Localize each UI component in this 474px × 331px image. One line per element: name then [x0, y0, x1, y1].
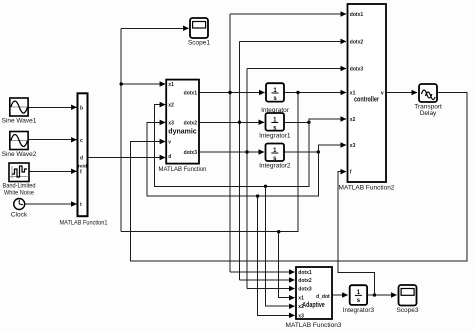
svg-text:dotx1: dotx1: [184, 90, 198, 96]
svg-text:b: b: [80, 105, 83, 111]
svg-text:dotx3: dotx3: [350, 67, 364, 73]
wire dotx2 to controller: [240, 40, 347, 42]
svg-text:x2: x2: [168, 103, 174, 109]
svg-text:Integrator2: Integrator2: [259, 163, 291, 170]
svg-text:dotx3: dotx3: [184, 150, 198, 156]
svg-text:dotx2: dotx2: [298, 278, 312, 284]
junction x3 to adaptive: [256, 194, 259, 197]
svg-text:Clock: Clock: [11, 212, 28, 219]
wire White Noise to f: [29, 170, 77, 172]
block Scope1: [188, 18, 210, 47]
svg-text:dynamic: dynamic: [168, 129, 197, 136]
svg-text:dotx1: dotx1: [350, 12, 364, 18]
svg-text:x1: x1: [168, 82, 174, 88]
svg-text:x3: x3: [168, 120, 174, 126]
block Integrator2: [259, 144, 291, 170]
wire dotx3 trunk vertical: [246, 69, 248, 289]
junction x1 to adaptive: [277, 230, 280, 233]
block MATLAB Function2 controller: [339, 4, 395, 192]
block Clock: [11, 199, 28, 219]
block Integrator3: [343, 285, 375, 314]
wire x1 feedback down: [121, 93, 298, 232]
svg-text:v: v: [168, 140, 171, 146]
svg-text:Scope3: Scope3: [396, 307, 418, 314]
wire x3 to Adaptive x3: [258, 196, 295, 315]
wire x3 jog to controller x3: [318, 145, 346, 152]
svg-text:x2: x2: [350, 117, 356, 123]
wire x2 to Adaptive x2: [266, 186, 295, 306]
wire to x1 input of dynamic: [121, 83, 165, 85]
wire x1 to Adaptive x1: [279, 232, 295, 298]
wire dotx2 to Adaptive: [240, 279, 295, 281]
svg-text:dotx2: dotx2: [350, 39, 364, 45]
junction dotx1: [228, 91, 231, 94]
block MATLAB Function1: [60, 93, 108, 226]
svg-text:Sine Wave2: Sine Wave2: [2, 151, 37, 158]
wire dotx1: dynamic to Integrator: [199, 92, 265, 94]
wire dotx3: dynamic to Integrator2: [199, 151, 264, 153]
junction x2 to adaptive: [264, 185, 267, 188]
block MATLAB Function dynamic: [159, 80, 207, 173]
junction dotx3: [245, 150, 248, 153]
wire dotx2 trunk vertical: [239, 41, 241, 280]
junction f tap: [373, 293, 376, 296]
wire v feedback from Transport Delay to dynamic v: [130, 93, 466, 261]
wire dotx1 to controller: [230, 13, 346, 15]
block MATLAB Function3 Adaptive: [286, 267, 342, 329]
junction x3 out: [317, 150, 320, 153]
svg-text:controller: controller: [354, 97, 379, 104]
block Sine Wave1: [2, 98, 37, 125]
wire x2 feedback down and left: [154, 105, 309, 187]
wire x1: Integrator out to controller x1: [284, 92, 346, 94]
svg-text:v: v: [381, 91, 384, 97]
wire dotx2: dynamic to Integrator1: [199, 121, 264, 123]
wire dotx1 trunk vertical: [229, 14, 231, 272]
svg-text:MATLAB Function1: MATLAB Function1: [60, 220, 108, 227]
svg-text:Band-Limited: Band-Limited: [3, 183, 36, 190]
wire x2 jog to controller x2: [309, 119, 346, 122]
svg-text:Adaptive: Adaptive: [302, 302, 325, 309]
svg-text:MATLAB Function3: MATLAB Function3: [286, 322, 342, 329]
svg-text:x3: x3: [298, 313, 304, 319]
wire to Scope1: [121, 27, 188, 29]
wire d output of MATLAB Function1 to d input of dynamic: [88, 157, 166, 159]
block Band-Limited White Noise: [3, 163, 36, 197]
wire dotx3 to controller: [247, 68, 346, 70]
wire x1 feedback trunk vertical: [120, 28, 122, 231]
svg-text:dotx1: dotx1: [298, 270, 312, 276]
junction x1-branch: [120, 82, 123, 85]
svg-text:Sine Wave1: Sine Wave1: [2, 118, 37, 125]
wire Clock to t: [25, 203, 77, 205]
svg-text:dotx3: dotx3: [298, 287, 312, 293]
svg-text:x1: x1: [298, 296, 304, 302]
block Sine Wave2: [2, 132, 37, 158]
svg-text:MATLAB Function: MATLAB Function: [159, 166, 207, 173]
junction dotx2: [238, 121, 241, 124]
wire v: controller to Transport Delay: [386, 92, 417, 94]
wire Sine Wave2 to c: [28, 139, 77, 141]
wire dotx3 to Adaptive: [247, 288, 295, 290]
wire x3: Integrator2 out: [284, 151, 318, 153]
svg-text:Integrator1: Integrator1: [259, 132, 291, 139]
wire Sine Wave1 to b: [28, 106, 77, 108]
svg-text:Integrator3: Integrator3: [343, 307, 375, 314]
block Transport Delay: [414, 84, 442, 117]
junction x2 out: [307, 121, 310, 124]
wire Integrator3 to Scope3: [367, 294, 396, 296]
block Integrator1: [259, 113, 291, 139]
junction x1 out: [296, 91, 299, 94]
block Scope3: [396, 285, 418, 314]
svg-text:White Noise: White Noise: [4, 190, 34, 197]
wire x2: Integrator1 out: [284, 121, 309, 123]
svg-text:Scope1: Scope1: [188, 40, 210, 47]
wire dotx1 to Adaptive: [230, 271, 295, 273]
svg-text:d: d: [168, 154, 171, 160]
svg-text:d_dot: d_dot: [316, 294, 330, 300]
svg-text:dotx2: dotx2: [184, 120, 198, 126]
wire Adaptive d_dot to Integrator3: [332, 294, 348, 296]
block Integrator: [261, 83, 290, 114]
svg-text:d: d: [80, 155, 83, 161]
svg-text:c: c: [80, 138, 83, 144]
svg-text:x3: x3: [350, 143, 356, 149]
wire x3 feedback down and left: [147, 122, 318, 196]
wire f feedback to controller f: [338, 172, 374, 295]
svg-text:Delay: Delay: [420, 110, 437, 117]
svg-text:mid: mid: [78, 163, 87, 168]
svg-text:MATLAB Function2: MATLAB Function2: [339, 185, 395, 192]
